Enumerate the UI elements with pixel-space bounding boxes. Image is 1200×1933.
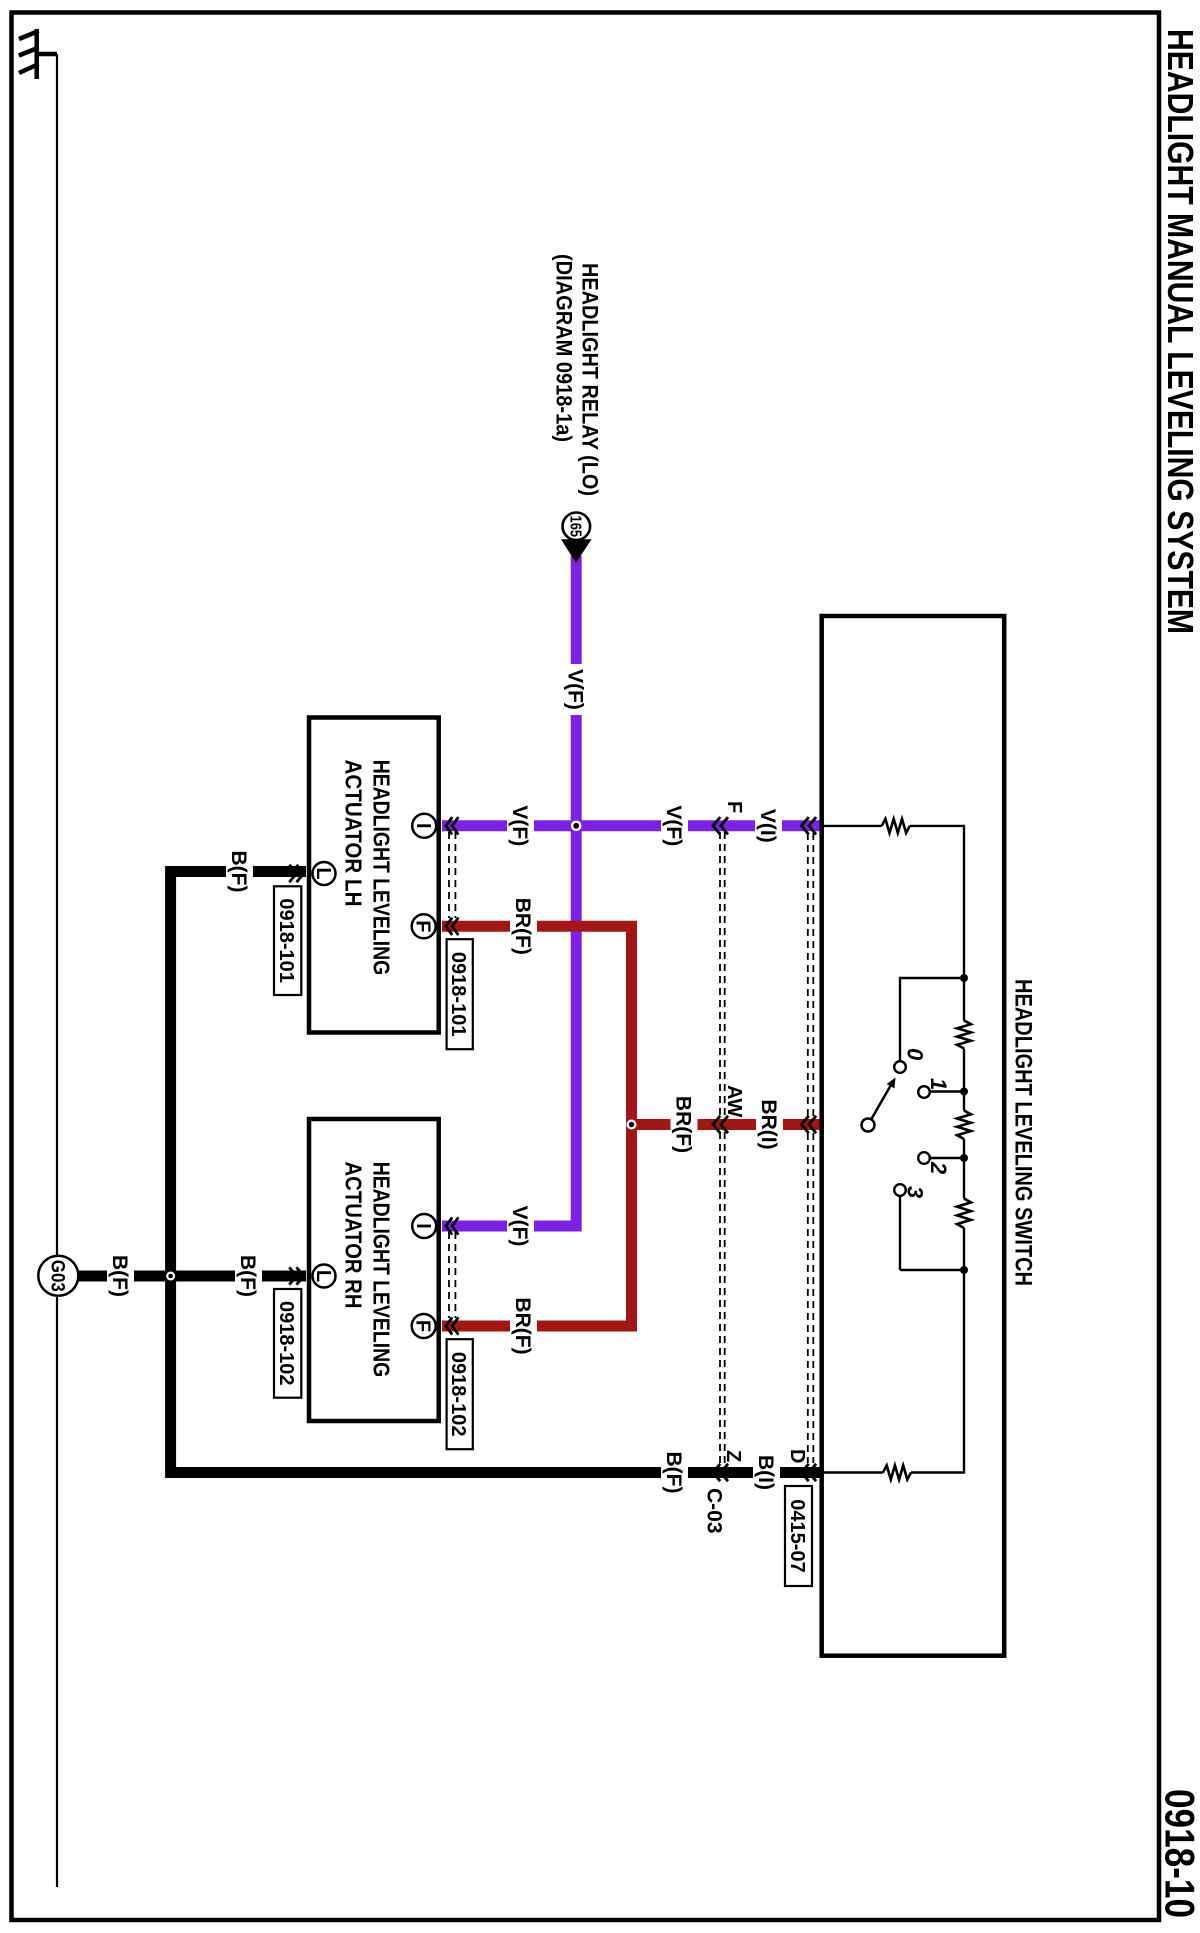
svg-text:BR(F): BR(F): [511, 1297, 534, 1354]
svg-text:V(F): V(F): [662, 805, 685, 846]
contact 2 stub: [929, 1157, 964, 1159]
wire from V(I) entry to resistor R1: [822, 825, 882, 827]
svg-text:HEADLIGHT LEVELING SWITCH: HEADLIGHT LEVELING SWITCH: [1010, 979, 1037, 1286]
svg-text:HEADLIGHT MANUAL LEVELING SYST: HEADLIGHT MANUAL LEVELING SYSTEM: [1160, 29, 1200, 634]
switch internal wiring: [822, 819, 971, 1480]
RH I pin chevrons: [446, 1217, 452, 1234]
svg-text:AW: AW: [723, 1085, 745, 1117]
LH pin F: [412, 914, 436, 938]
boxed label 0415-07: [785, 1486, 812, 1586]
circle 165 relay ref: [563, 513, 591, 541]
wire label B(F) on LH L branch: [226, 848, 253, 896]
svg-text:V(F): V(F): [564, 669, 587, 710]
wire label BR(I): [756, 1097, 783, 1152]
wire B(F) black: G03 up to RH L pin: [78, 1271, 306, 1282]
wire label B(I): [753, 1452, 780, 1493]
G03 ground point circle: [38, 1256, 78, 1296]
wire label V(F) on RH branch: [507, 1201, 534, 1252]
svg-text:(DIAGRAM 0918-1a): (DIAGRAM 0918-1a): [552, 254, 577, 442]
LH L pin chevrons (pointing up): [297, 865, 304, 882]
headlight leveling actuator LH box: [309, 718, 439, 1033]
junction on BR at (1124.5,568.5): [627, 1120, 637, 1130]
switch contact 1: [918, 1086, 930, 1098]
wire R1 to chain node A: [910, 826, 964, 1021]
RH pin I: [412, 1214, 436, 1238]
svg-text:BR(F): BR(F): [672, 1096, 695, 1153]
svg-text:B(I): B(I): [754, 1455, 777, 1490]
junction on purple at (826,624): [571, 821, 582, 832]
wire label BR(F) near LH F pin: [510, 896, 537, 957]
svg-text:V(I): V(I): [756, 809, 779, 843]
svg-text:C-03: C-03: [703, 1488, 726, 1534]
svg-text:0918-101: 0918-101: [275, 898, 297, 983]
svg-text:0918-102: 0918-102: [447, 1352, 469, 1437]
wire label B(F) between G03 and junction: [107, 1252, 134, 1300]
LH pin L: [313, 862, 336, 885]
black chevrons at 0415-07: [802, 1464, 809, 1481]
svg-text:D: D: [786, 1449, 808, 1463]
svg-text:3: 3: [903, 1186, 928, 1198]
resistor R2: [957, 1021, 971, 1049]
node C junction dot: [960, 1154, 968, 1162]
svg-text:HEADLIGHT LEVELING: HEADLIGHT LEVELING: [369, 1162, 395, 1378]
resistor R1: [882, 819, 910, 833]
purple switch branch chevrons at 0415-07: [802, 817, 809, 834]
wire V(F) purple branch to switch and LH actuator: [442, 820, 822, 831]
svg-text:0918-101: 0918-101: [447, 952, 469, 1037]
chevrons at connectors (double arrows): [289, 817, 816, 1481]
branch to contact 0: [900, 978, 964, 1061]
wire label BR(F) near RH F pin: [510, 1296, 537, 1357]
RH L pin chevrons (pointing up): [297, 1267, 304, 1284]
relay arrow head: [561, 539, 592, 563]
svg-text:I: I: [412, 1223, 434, 1229]
svg-text:ACTUATOR LH: ACTUATOR LH: [340, 760, 366, 907]
wire node B to node C: [963, 1139, 965, 1199]
svg-text:165: 165: [567, 516, 584, 538]
LH F pin chevrons: [446, 918, 452, 935]
contact 1 stub: [929, 1090, 964, 1092]
RH pin L: [313, 1265, 336, 1288]
boxed label 0918-102 at RH F: [447, 1339, 473, 1449]
resistor R3: [957, 1111, 971, 1140]
node D junction dot: [960, 1266, 968, 1274]
BR chevrons at C-03: [713, 1116, 720, 1133]
connector 0918-101 dashed lines (LH I-F): [449, 832, 455, 918]
svg-text:B(F): B(F): [227, 851, 250, 893]
BR chevrons at 0415-07: [802, 1116, 809, 1133]
LH I pin chevrons: [446, 817, 452, 834]
headlight leveling switch box: [822, 616, 1005, 1656]
purple chevrons at C-03: [713, 817, 720, 834]
svg-text:F: F: [412, 1320, 434, 1332]
wire R5 to B(I) exit: [822, 1471, 883, 1473]
svg-text:F: F: [412, 920, 434, 932]
svg-text:B(F): B(F): [662, 1452, 685, 1494]
RH pin F: [412, 1314, 436, 1338]
svg-text:L: L: [312, 1270, 334, 1282]
wire label B(F) on switch branch: [661, 1449, 688, 1497]
svg-text:V(F): V(F): [508, 805, 531, 846]
RH F pin chevrons: [446, 1317, 452, 1334]
wire label V(F) between junction and LH I pin: [507, 800, 534, 851]
wire B(F) cross run: [171, 872, 822, 1473]
wire label B(F) on K1 to RH L pin: [235, 1252, 262, 1300]
wire BR branch to switch: [632, 1119, 823, 1130]
svg-text:HEADLIGHT RELAY (LO): HEADLIGHT RELAY (LO): [578, 263, 603, 496]
svg-text:1: 1: [926, 1078, 951, 1090]
svg-text:B(F): B(F): [236, 1255, 259, 1297]
boxed label 0918-101 at LH L: [274, 886, 301, 995]
svg-text:2: 2: [926, 1161, 951, 1175]
branch to contact 3: [900, 1196, 964, 1270]
svg-text:0415-07: 0415-07: [786, 1499, 808, 1572]
svg-text:V(F): V(F): [508, 1206, 531, 1247]
junction on black at (1276,1029.4): [166, 1272, 175, 1281]
black chevrons at C-03: [713, 1464, 720, 1481]
svg-text:HEADLIGHT LEVELING: HEADLIGHT LEVELING: [369, 760, 395, 976]
svg-text:Z: Z: [722, 1450, 744, 1462]
wire label V(F) above C-03 on switch branch: [661, 800, 688, 851]
svg-text:B(F): B(F): [108, 1255, 131, 1297]
wire label V(I) above 0415-07: [755, 805, 782, 847]
switch contact 0: [894, 1061, 906, 1073]
wiper pivot: [862, 1119, 875, 1132]
connector 0415-07 dashed lines: [808, 833, 814, 1463]
svg-text:0918-10: 0918-10: [1157, 1789, 1200, 1918]
wire BR dark red: LH F pin up, across, down to RH F pin: [442, 926, 632, 1326]
svg-text:BR(I): BR(I): [757, 1099, 780, 1149]
svg-text:L: L: [312, 867, 334, 879]
wire V(F) purple main run from relay arrow to RH corner: [442, 556, 576, 1226]
svg-text:F: F: [723, 801, 745, 813]
wire label BR(F) on switch branch: [671, 1094, 698, 1155]
switch contact 2: [918, 1152, 930, 1164]
switch contact 3: [894, 1184, 906, 1196]
svg-text:BR(F): BR(F): [511, 898, 534, 955]
switch wiper arm: [871, 1084, 891, 1119]
node B junction dot: [960, 1088, 968, 1096]
wire node A to node B: [963, 1049, 965, 1111]
headlight leveling actuator RH box: [309, 1119, 439, 1421]
svg-text:ACTUATOR RH: ACTUATOR RH: [340, 1162, 366, 1309]
wire label V(F) on main run: [563, 664, 590, 715]
svg-text:0: 0: [903, 1048, 928, 1061]
boxed label 0918-102 at RH L: [274, 1289, 301, 1398]
ground symbol: [19, 29, 57, 79]
resistor R5: [883, 1466, 911, 1480]
boxed label 0918-101 at LH F: [447, 939, 473, 1049]
connector 0918-102 dashed lines (RH I-F): [449, 1232, 455, 1318]
wire node C to corner and down: [911, 1228, 964, 1473]
ground bus wire G03 rail: [56, 54, 58, 1887]
svg-text:I: I: [412, 823, 434, 829]
svg-text:0918-102: 0918-102: [275, 1301, 297, 1386]
resistor R4: [957, 1199, 971, 1229]
node A junction dot: [960, 974, 968, 982]
LH pin I: [412, 814, 436, 838]
connector C-03 dashed lines: [720, 832, 725, 1464]
svg-text:G03: G03: [47, 1260, 68, 1292]
